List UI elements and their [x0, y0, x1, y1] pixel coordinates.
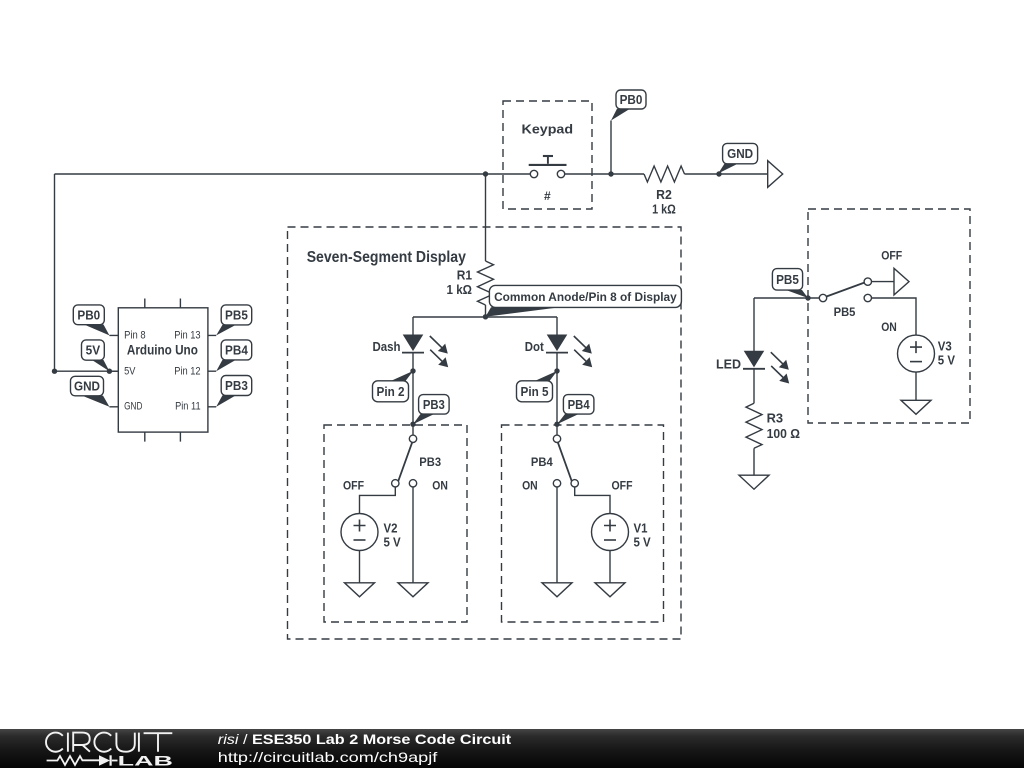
svg-text:ON: ON [432, 481, 448, 493]
svg-text:Pin 5: Pin 5 [521, 385, 549, 399]
svg-text:PB5: PB5 [776, 273, 799, 287]
svg-text:PB0: PB0 [620, 93, 643, 107]
svg-text:V1: V1 [634, 521, 648, 535]
svg-text:PB4: PB4 [531, 457, 553, 469]
svg-text:Dash: Dash [373, 340, 401, 354]
svg-text:R3: R3 [767, 412, 784, 426]
svg-text:1 kΩ: 1 kΩ [447, 283, 473, 297]
svg-text:PB3: PB3 [423, 398, 445, 412]
svg-text:PB3: PB3 [419, 457, 441, 469]
svg-text:100 Ω: 100 Ω [767, 427, 800, 441]
svg-text:R1: R1 [457, 269, 472, 283]
svg-text:Arduino Uno: Arduino Uno [127, 343, 198, 359]
svg-text:PB3: PB3 [225, 379, 248, 393]
svg-text:PB5: PB5 [225, 308, 248, 322]
svg-text:GND: GND [124, 400, 142, 412]
svg-text:risi / ESE350 Lab 2 Morse Code: risi / ESE350 Lab 2 Morse Code Circuit [218, 731, 512, 747]
svg-text:V2: V2 [384, 521, 398, 535]
svg-text:LED: LED [716, 357, 741, 371]
svg-text:Keypad: Keypad [522, 122, 574, 137]
svg-text:1 kΩ: 1 kΩ [652, 203, 676, 217]
svg-text:OFF: OFF [881, 250, 902, 262]
svg-text:5 V: 5 V [938, 354, 956, 368]
svg-text:Pin 2: Pin 2 [377, 385, 405, 399]
svg-text:Seven-Segment Display: Seven-Segment Display [307, 249, 466, 266]
svg-text:PB4: PB4 [225, 343, 248, 357]
svg-text:Pin 12: Pin 12 [174, 365, 200, 377]
svg-text:LAB: LAB [118, 753, 173, 768]
svg-text:Dot: Dot [525, 340, 545, 354]
svg-text:5V: 5V [124, 365, 136, 377]
svg-text:V3: V3 [938, 339, 952, 353]
svg-text:ON: ON [522, 481, 538, 493]
svg-text:Common Anode/Pin 8 of Display: Common Anode/Pin 8 of Display [494, 290, 677, 304]
svg-text:PB0: PB0 [77, 308, 100, 322]
svg-text:Pin 8: Pin 8 [124, 330, 146, 342]
svg-text:ON: ON [881, 322, 897, 334]
svg-text:GND: GND [74, 380, 100, 394]
svg-text:5V: 5V [86, 344, 101, 358]
svg-text:PB5: PB5 [834, 307, 856, 319]
svg-text:OFF: OFF [612, 481, 633, 493]
svg-text:5 V: 5 V [634, 535, 652, 549]
svg-text:OFF: OFF [343, 481, 364, 493]
svg-text:Pin 13: Pin 13 [174, 330, 200, 342]
svg-text:http://circuitlab.com/ch9apjf: http://circuitlab.com/ch9apjf [218, 749, 438, 765]
svg-text:5 V: 5 V [384, 535, 402, 549]
svg-text:PB4: PB4 [568, 398, 590, 412]
svg-text:#: # [544, 189, 551, 203]
svg-text:R2: R2 [656, 188, 672, 202]
svg-text:GND: GND [727, 147, 753, 161]
svg-text:Pin 11: Pin 11 [175, 400, 201, 412]
